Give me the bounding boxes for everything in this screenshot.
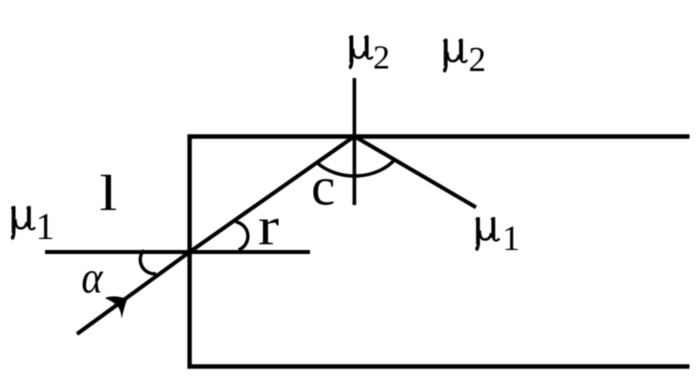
svg-text:1: 1 [36,206,55,248]
normal to top face (vertical line) [353,78,357,205]
reflected ray at top face [354,136,476,207]
svg-text:2: 2 [373,40,390,77]
svg-text:2: 2 [469,40,487,79]
angle arc alpha [140,250,156,274]
incident ray [77,252,190,334]
angle arc c [317,160,395,176]
svg-text:c: c [311,157,335,217]
normal to left face (horizontal line) [45,250,310,254]
label mu1 top-left: mu [11,206,35,240]
label mu2 first: mu [349,35,373,69]
label mu1 bottom-right: mu [475,217,499,251]
arrowhead on incident ray [105,296,127,318]
svg-text:1: 1 [502,218,520,258]
svg-text:α: α [81,254,104,303]
glass slab rectangle (open right side) [190,137,690,367]
refracted ray inside slab [190,136,355,252]
svg-text:l: l [99,165,117,221]
svg-text:r: r [258,197,280,257]
label mu2 second: mu [443,39,467,73]
angle arc r [236,222,248,250]
